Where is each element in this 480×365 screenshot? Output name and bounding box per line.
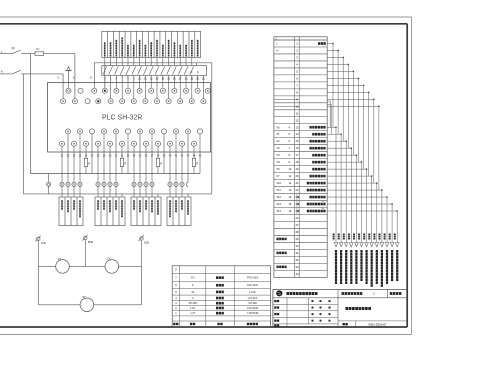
cross-ref row line 22 [274, 193, 327, 195]
motor loop right [141, 266, 143, 304]
PLC input pin row1 #5 [114, 88, 119, 93]
input label text col 17 [197, 40, 199, 42]
output terminal x=104 [102, 182, 106, 186]
PLC input pin row1 #1 [66, 88, 71, 93]
cross-ref row line 5 [274, 74, 327, 76]
input label strip box [102, 31, 201, 57]
label box divider 5 [130, 31, 132, 57]
cable arrow 13 [395, 243, 399, 247]
breaker SHB [84, 236, 88, 240]
stub from label box col 4 [121, 58, 123, 66]
label box divider 7 [141, 31, 143, 57]
input label text col 14 [179, 45, 181, 47]
output wire to bus1 col x=200 [199, 134, 201, 174]
output wire col x=170 [169, 146, 171, 182]
svg-text:Y-HC60/38: Y-HC60/38 [247, 312, 259, 315]
snubber R x=158 [156, 158, 159, 166]
common bus 2 [23, 193, 212, 195]
node L1 tap [29, 54, 31, 174]
terminal stub to bus2 x=68 [67, 187, 69, 194]
svg-text:1-3Y: 1-3Y [190, 312, 195, 315]
PLC input pin row2 #7 [131, 99, 136, 104]
PLC output pin row3 #8 [149, 129, 154, 134]
BOM row line [172, 288, 270, 290]
PLC output pin row4 #4 [95, 141, 100, 146]
contact blade col 1 [103, 66, 107, 74]
contact blade col 15 [184, 66, 188, 74]
wire row5 down [352, 71, 354, 155]
cable arrow 1 [334, 243, 338, 247]
cable name 4 [350, 250, 352, 253]
label box divider 14 [182, 31, 184, 57]
svg-text:6CB: 6CB [144, 241, 149, 244]
breaker 1CB drop [37, 241, 39, 267]
BOM row line [172, 272, 270, 274]
wire row9 down [373, 99, 375, 183]
label tuhao [343, 323, 345, 325]
wire row10 down [378, 106, 380, 190]
svg-text:X12: X12 [277, 196, 282, 199]
fuse FU1 [35, 52, 44, 56]
switch QF1 blade [12, 50, 21, 54]
stub bus2 to label group 2 col 4 [115, 194, 117, 197]
cable name 12 [391, 250, 393, 253]
cross-ref row line 7 [274, 88, 327, 90]
terminal contact band box [102, 66, 207, 76]
svg-text:18: 18 [296, 160, 299, 164]
PLC input pin row2 #3 [85, 99, 90, 104]
breaker 1CB [37, 237, 41, 241]
half terminal [186, 182, 188, 186]
split cell row 25 [296, 208, 298, 215]
svg-text:SHB: SHB [88, 241, 93, 244]
output terminal x=68 [66, 182, 70, 186]
cross-ref row line 29 [274, 241, 327, 243]
input label text col 10 [156, 40, 158, 42]
output terminal x=74 [72, 182, 76, 186]
cross-ref row line 16 [274, 151, 327, 153]
stub bus2 to label group 3 col 4 [151, 194, 153, 197]
cross-ref row line 21 [274, 186, 327, 188]
wire contact 16 to PLC pin [191, 75, 193, 98]
stub bus2 to label group 4 col 2 [175, 194, 177, 197]
wire row16 out [327, 147, 351, 149]
svg-text:20: 20 [296, 174, 299, 178]
svg-text:15: 15 [296, 139, 299, 143]
terminal stub to bus2 x=170 [169, 187, 171, 194]
output label group 4 col 4 text [187, 200, 189, 202]
wire contact 2 to PLC pin [110, 75, 112, 98]
output label group 3 col 1 text [133, 200, 135, 202]
label box divider 3 [118, 31, 120, 57]
output wire to bus1 col x=128 [127, 134, 129, 174]
svg-text:32: 32 [296, 258, 299, 262]
stub bus2 to label group 4 col 3 [181, 194, 183, 197]
label box divider 8 [147, 31, 149, 57]
C col drop 2 [202, 75, 204, 98]
PLC input pin row2 #9 [154, 99, 159, 104]
input label text col 13 [174, 42, 176, 44]
contact blade col 13 [173, 66, 177, 74]
wire row22 out [327, 189, 382, 191]
cross-ref row line 25 [274, 214, 327, 216]
PLC output pin row3 #2 [77, 129, 82, 134]
wire row23 down to arrow [386, 197, 388, 242]
svg-text:30: 30 [296, 244, 299, 248]
PLC input pin row1 #2 [78, 88, 83, 93]
title left label 0 [274, 300, 276, 302]
input label text col 15 [185, 45, 187, 47]
wire row3 out [327, 56, 343, 58]
svg-text:FU: FU [36, 48, 39, 51]
PLC input pin row1 #3 [92, 88, 97, 93]
cable arrow 2 [339, 243, 343, 247]
wire contact 10 to PLC pin [156, 75, 158, 98]
stub bus2 to label group 1 col 3 [73, 194, 75, 197]
label box divider 11 [165, 31, 167, 57]
title left row line [273, 310, 338, 312]
wire row5 out [327, 70, 353, 72]
half-row stub wires [327, 100, 330, 102]
stub from label box col 6 [133, 58, 135, 66]
terminal stub to bus2 x=140 [139, 187, 141, 194]
svg-text:22: 22 [296, 188, 299, 192]
wire L2 drop to terminal 2 [62, 74, 64, 99]
row 21 right label [307, 182, 309, 185]
breaker 6CB drop [141, 240, 143, 266]
svg-text:1CB: 1CB [41, 242, 46, 245]
svg-text:33: 33 [296, 265, 299, 269]
wire row18 down to arrow [361, 162, 363, 242]
cross-ref row line 8 [274, 95, 327, 97]
cross-ref row line 27 [274, 227, 327, 229]
PLC output pin row3 #9 [161, 129, 166, 134]
title bottom row line [338, 320, 407, 322]
output label group 2 col 1 text [97, 200, 99, 202]
wire row7 out [327, 84, 363, 86]
wire row8 down [368, 92, 370, 176]
contact blade col 2 [109, 66, 113, 74]
contact blade col 6 [132, 66, 136, 74]
wire row22 down to arrow [381, 190, 383, 242]
cable arrow 9 [375, 243, 379, 247]
contact blade col 11 [161, 66, 165, 74]
output label group 4 col 3 text [181, 200, 183, 202]
svg-text:RT14-20/2: RT14-20/2 [247, 277, 259, 280]
svg-text:N: N [1, 70, 3, 74]
label box divider 6 [136, 31, 138, 57]
contact blade col 3 [115, 66, 119, 74]
wire L1 drop to terminal 3 [74, 54, 76, 99]
motor loop left [37, 266, 39, 304]
snubber R x=86 [84, 158, 87, 166]
svg-text:11: 11 [296, 111, 299, 115]
output label group 1 col 1 text [61, 200, 63, 202]
svg-text:X13: X13 [277, 203, 282, 206]
drawing title [346, 307, 349, 310]
common wire over band [94, 62, 212, 64]
label box divider 2 [112, 31, 114, 57]
output label group 3 col 4 text [151, 200, 153, 202]
cable name 2 [340, 250, 342, 253]
power label row 33 [277, 266, 279, 269]
row 17 right label [312, 154, 314, 157]
svg-text:X14: X14 [277, 210, 282, 213]
PLC input pin row2 #5 [108, 99, 113, 104]
svg-text:X10: X10 [277, 182, 282, 185]
terminal stub to bus2 x=182 [181, 187, 183, 194]
svg-text:14: 14 [296, 132, 299, 136]
PLC input pin row1 #13 [205, 88, 210, 93]
svg-text:PLC SH-32R: PLC SH-32R [102, 115, 142, 122]
svg-text:26: 26 [296, 216, 299, 220]
output wire col x=182 [181, 146, 183, 182]
cable arrow 11 [385, 243, 389, 247]
terminal stub to bus2 x=116 [115, 187, 117, 194]
PLC input pin row2 #8 [143, 99, 148, 104]
PLC input pin row1 #10 [172, 88, 177, 93]
PLC output pin row3 #12 [197, 129, 202, 134]
PLC output pin row3 #4 [101, 129, 106, 134]
cross-ref row line 19 [274, 172, 327, 174]
title block row1 divider [387, 289, 389, 297]
wire row10 out [327, 105, 379, 107]
output wire col x=146 [145, 146, 147, 182]
wire row14 down to arrow [340, 134, 342, 242]
output label group 1 box [59, 197, 83, 226]
svg-text:3Y: 3Y [82, 295, 86, 299]
output label group 2 box [95, 197, 125, 226]
cable name 8 [371, 250, 373, 253]
PLC output pin row4 #5 [107, 141, 112, 146]
cable tag 8 [368, 234, 370, 236]
terminal stub to bus2 x=134 [133, 187, 135, 194]
wire row19 out [327, 168, 366, 170]
input label text col 7 [139, 40, 141, 42]
row 23 right label [310, 196, 312, 199]
svg-text:28: 28 [296, 230, 299, 234]
cross-ref row line 11 [274, 116, 327, 118]
title block row1 line [273, 297, 407, 299]
cable name 3 [345, 250, 347, 253]
PLC input pin row1 #7 [137, 88, 142, 93]
row 16 right label [310, 147, 312, 150]
PLC output pin row4 #2 [71, 141, 76, 146]
split cell row 24 [296, 201, 298, 208]
wire row6 down [358, 78, 360, 162]
snubber R x=122 [120, 158, 123, 166]
wire row19 down to arrow [366, 169, 368, 242]
PLC output pin row3 #6 [125, 129, 130, 134]
wire contact 8 to PLC pin [144, 75, 146, 98]
stub bus2 to label group 3 col 3 [145, 194, 147, 197]
svg-text:2Y: 2Y [107, 257, 111, 261]
PLC input pin row1 #12 [195, 88, 200, 93]
svg-text:12: 12 [296, 118, 299, 122]
wire row14 out [327, 133, 341, 135]
terminal stub to bus2 x=146 [145, 187, 147, 194]
stub from label box col 8 [144, 58, 146, 66]
input label text col 6 [133, 45, 135, 47]
output label group 1 col 4 text [79, 200, 81, 202]
snubber wire col x=86 [85, 146, 87, 158]
cable name 7 [366, 250, 368, 253]
svg-text:0501-D220-07: 0501-D220-07 [369, 322, 387, 326]
stub from label box col 15 [185, 58, 187, 66]
PLC output pin row3 #10 [173, 129, 178, 134]
PLC input pin row2 #12 [189, 99, 194, 104]
half row split b [274, 105, 299, 107]
PLC input pin row2 #6 [120, 99, 125, 104]
output wire col x=140 [139, 134, 141, 182]
PLC output pin row3 #1 [65, 129, 70, 134]
svg-text:FU: FU [191, 277, 194, 280]
cross-ref row line 1 [274, 46, 327, 48]
wire row16 down to arrow [350, 148, 352, 242]
stub from label box col 2 [110, 58, 112, 66]
terminal stub to bus2 x=74 [73, 187, 75, 194]
terminal stub to bus2 x=80 [79, 187, 81, 194]
breaker SHB drop [84, 240, 86, 267]
wire row21 out [327, 182, 377, 184]
stub from label box col 16 [191, 58, 193, 66]
output label group 4 col 2 text [175, 200, 177, 202]
contact blade col 9 [149, 66, 153, 74]
cross-ref row line 17 [274, 158, 327, 160]
wire L1 after fuse [44, 53, 75, 55]
wire contact 4 to PLC pin [121, 75, 123, 98]
BOM footer texts [173, 323, 175, 325]
PLC input pin row2 #2 [72, 99, 77, 104]
contact blade col 14 [178, 66, 182, 74]
wire row7 down [363, 85, 365, 169]
output terminal x=110 [108, 182, 112, 186]
row 15 right label [310, 140, 312, 143]
wire row4 out [327, 63, 348, 65]
label box divider 4 [124, 31, 126, 57]
title left row line [273, 323, 338, 325]
svg-text:R: R [196, 162, 198, 166]
BOM col line [179, 266, 181, 327]
PE terminal [47, 182, 51, 186]
power label row 29 [277, 238, 279, 241]
output wire col x=134 [133, 146, 135, 182]
output label group 2 col 2 text [103, 200, 105, 202]
snubber wire col x=122 [121, 146, 123, 158]
output label group 3 col 3 text [145, 200, 147, 202]
output label group 3 col 2 text [139, 200, 141, 202]
wire row1 out [327, 42, 333, 44]
cross-ref row line 33 [274, 269, 327, 271]
input label text col 1 [104, 42, 106, 44]
cross-ref row line 3 [274, 60, 327, 62]
title bottom divider [355, 321, 357, 327]
cable arrow 5 [355, 243, 359, 247]
PLC output pin row3 #3 [89, 129, 94, 134]
title left label 2 [274, 313, 276, 315]
PLC output pin row4 #7 [131, 141, 136, 146]
BOM row line [172, 305, 270, 307]
cross-ref row line 28 [274, 234, 327, 236]
motor 3Y [80, 298, 94, 312]
output wire col x=80 [79, 134, 81, 182]
BOM col line [205, 266, 207, 327]
wire row18 out [327, 161, 361, 163]
C col drop 1 [197, 75, 199, 88]
cable tag 7 [363, 234, 365, 236]
stub bus2 to label group 4 col 1 [169, 194, 171, 197]
cable arrow 7 [365, 243, 369, 247]
PLC output pin row3 #5 [113, 129, 118, 134]
stub bus2 to label group 3 col 2 [139, 194, 141, 197]
stub from label box col 5 [127, 58, 129, 66]
row 24 right label [307, 203, 309, 206]
title left label 4 [274, 324, 276, 326]
svg-text:: 2: : 2 [372, 292, 376, 296]
PLC input pin row2 #1 [61, 99, 66, 104]
contact blade col 16 [190, 66, 194, 74]
output wire col x=152 [151, 134, 153, 182]
BOM col line [234, 266, 236, 327]
wire row15 down to arrow [345, 141, 347, 242]
label box divider 9 [153, 31, 155, 57]
terminal stub to bus2 x=104 [103, 187, 105, 194]
title left row line [273, 303, 338, 305]
PLC input pin row2 #4 [96, 99, 101, 104]
wire row24 out [327, 203, 392, 205]
output wire to bus1 col x=92 [91, 134, 93, 174]
snubber wire col x=158 [157, 146, 159, 158]
motor loop top [38, 265, 141, 267]
output label group 3 col 5 text [157, 200, 159, 202]
stub from label box col 1 [104, 58, 106, 66]
wire row25 down to arrow [396, 211, 398, 242]
wire contact 3 to PLC pin [115, 75, 117, 88]
wire row6 out [327, 77, 358, 79]
wire row20 out [327, 175, 372, 177]
wire contact 12 to PLC pin [168, 75, 170, 98]
breaker 6CB [140, 237, 144, 241]
cable name 9 [376, 250, 378, 253]
cable name 10 [381, 250, 383, 253]
drop to terminal 1 [93, 63, 95, 88]
cross-ref col divider 2 [298, 37, 300, 278]
title left row line [273, 316, 338, 318]
output label group 2 col 5 text [121, 200, 123, 202]
cable arrow 8 [370, 243, 374, 247]
BOM row line [172, 294, 270, 296]
title sign marks 1 [312, 307, 314, 309]
svg-text:16: 16 [296, 146, 299, 150]
svg-text:34: 34 [296, 272, 299, 276]
BOM row line [172, 281, 270, 283]
svg-text:LAY-21/3: LAY-21/3 [248, 297, 258, 300]
cable name 1 [335, 250, 337, 253]
common bus 1 [30, 173, 200, 175]
PLC input pin row2 #13 [201, 99, 206, 104]
cable arrow 12 [390, 243, 394, 247]
output terminal x=134 [132, 182, 136, 186]
wire row4 down [347, 64, 349, 148]
cable arrow 3 [344, 243, 348, 247]
svg-text:LC1D: LC1D [250, 291, 256, 294]
output label group 4 col 1 text [169, 200, 171, 202]
PLC input pin row1 #6 [125, 88, 130, 93]
output terminal x=140 [138, 182, 142, 186]
wire row17 down to arrow [355, 155, 357, 242]
cross-ref col divider 1 [294, 37, 296, 278]
svg-text:R: R [88, 162, 90, 166]
